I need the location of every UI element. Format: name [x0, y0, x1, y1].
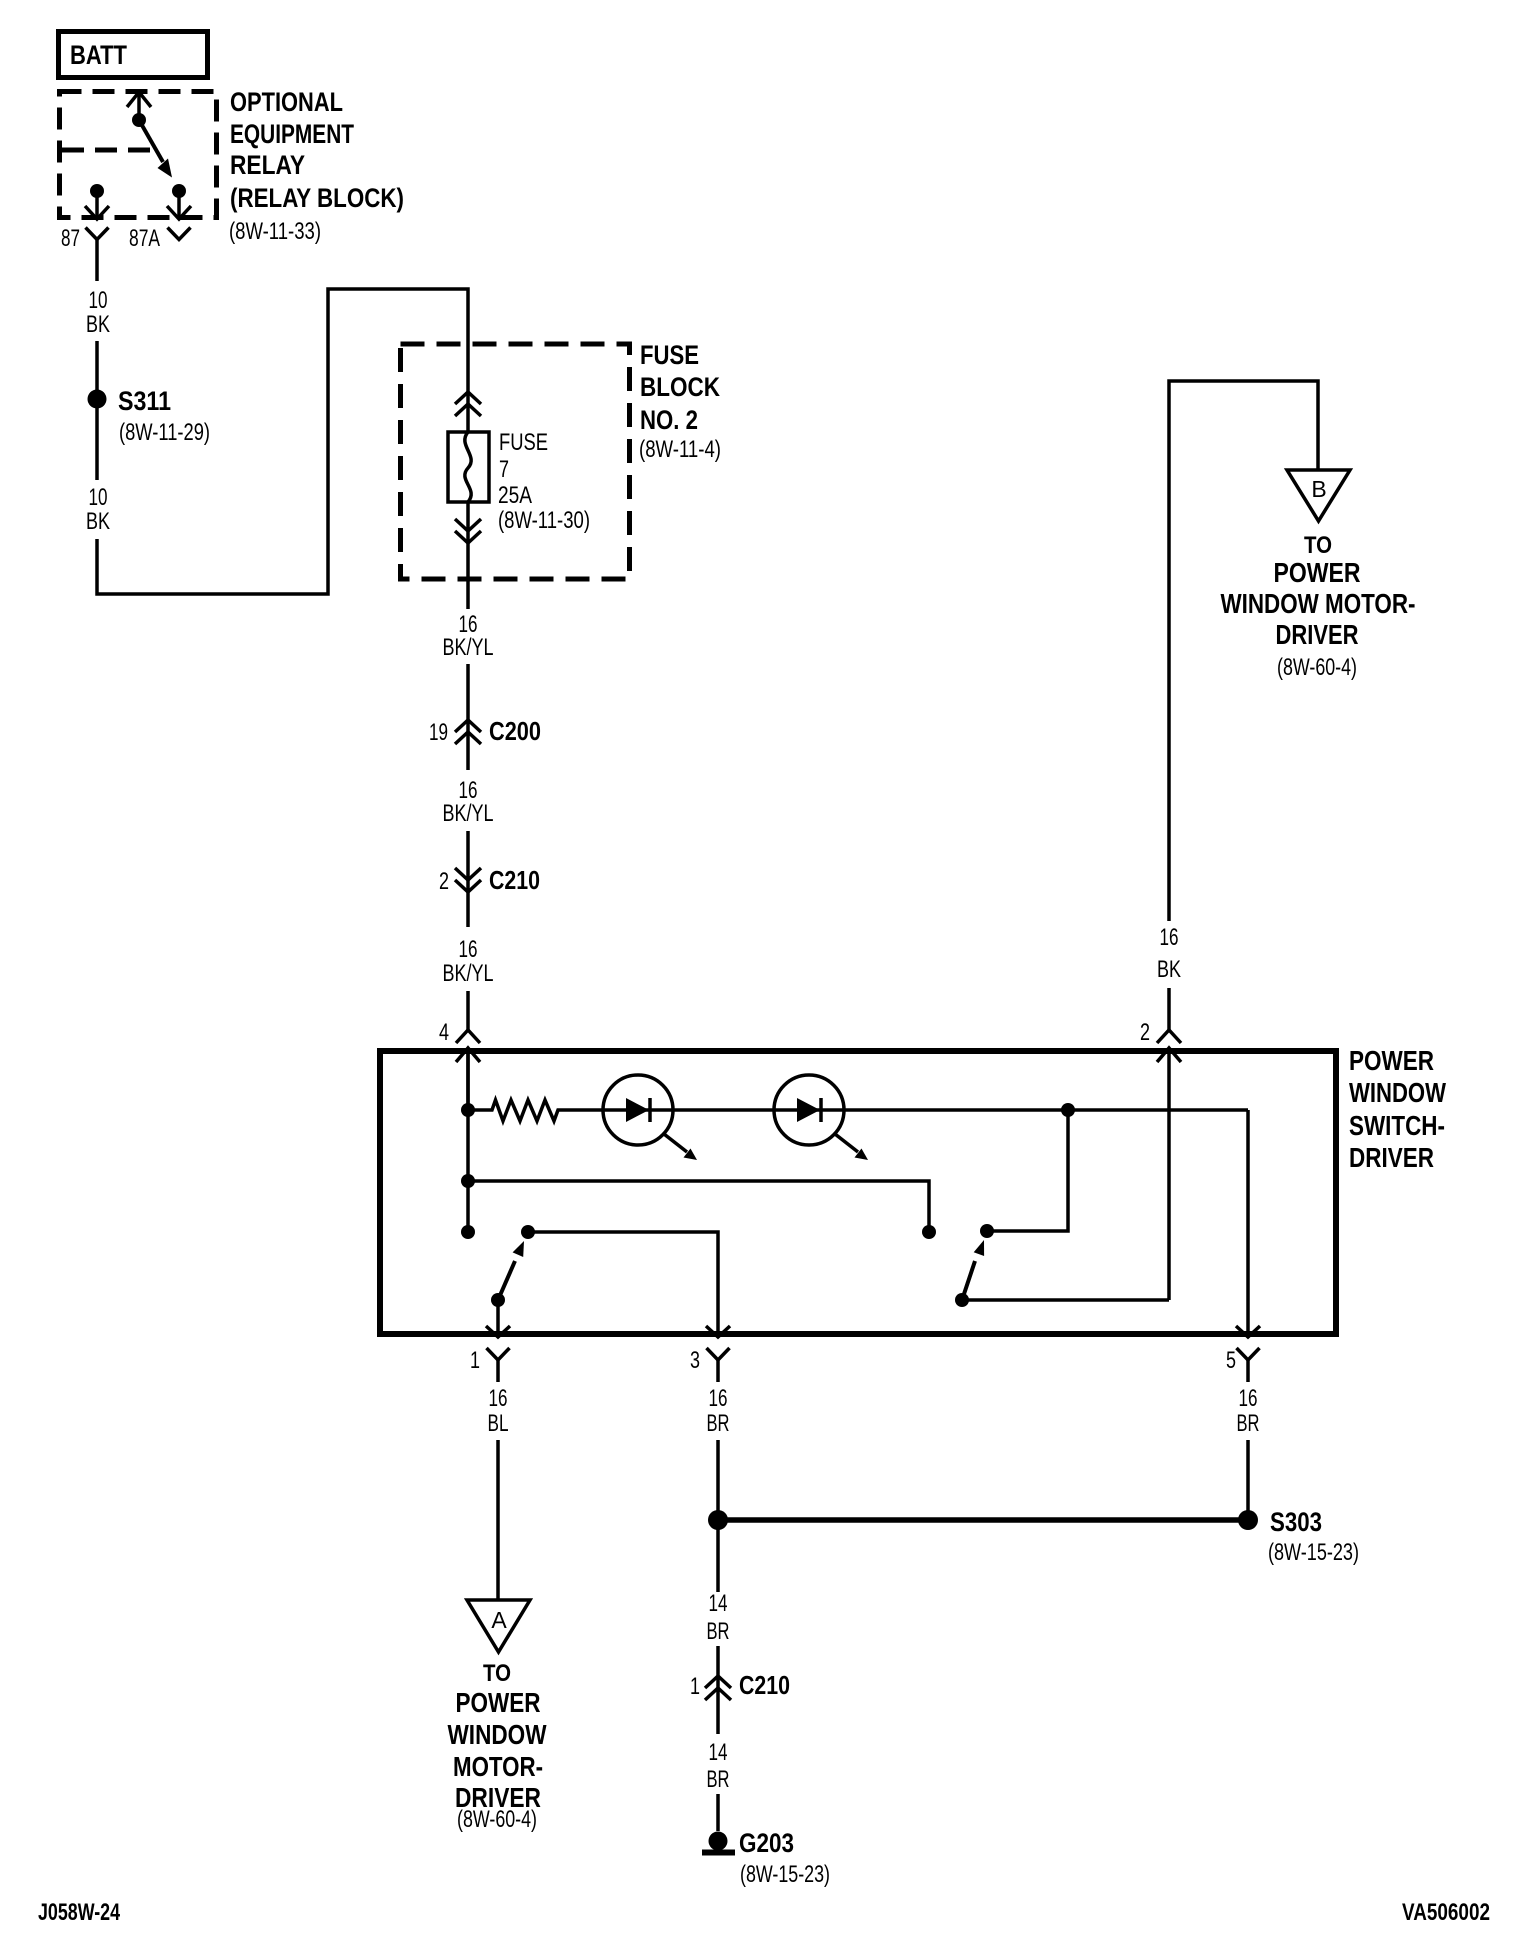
- svg-text:BR: BR: [1237, 1410, 1260, 1437]
- connector chevrons above fuse: [455, 392, 481, 416]
- drawing number VA506002: [1402, 1899, 1490, 1926]
- svg-text:(8W-15-23): (8W-15-23): [1268, 1539, 1359, 1566]
- relay K1 optional equipment relay dashed box: [60, 92, 217, 218]
- svg-text:BK/YL: BK/YL: [443, 800, 494, 827]
- svg-text:BK: BK: [86, 311, 110, 338]
- svg-text:(8W-11-29): (8W-11-29): [119, 419, 210, 446]
- svg-text:B: B: [1311, 476, 1326, 502]
- svg-text:A: A: [491, 1607, 507, 1633]
- svg-text:SWITCH-: SWITCH-: [1349, 1110, 1445, 1141]
- wire pin3 down: [716, 1440, 720, 1512]
- left switch SW1: [491, 1225, 535, 1337]
- svg-text:BK/YL: BK/YL: [443, 960, 494, 987]
- relay terminal 87: [61, 184, 109, 281]
- wire pin5 drop: [1236, 1110, 1260, 1337]
- svg-text:1: 1: [470, 1347, 480, 1374]
- pin 2 connector at switch top: [1140, 988, 1181, 1046]
- wire pin5 to S303: [1246, 1440, 1250, 1512]
- pin 1 connector: [470, 1326, 510, 1382]
- svg-text:1: 1: [690, 1673, 700, 1700]
- svg-text:2: 2: [439, 868, 449, 895]
- svg-text:WINDOW: WINDOW: [1349, 1077, 1446, 1108]
- svg-text:16: 16: [1239, 1385, 1258, 1412]
- wire to ground: [716, 1794, 720, 1831]
- wire left switch contact to pin3: [528, 1232, 718, 1337]
- svg-text:TO: TO: [1304, 532, 1332, 559]
- battery feed BATT: [59, 32, 208, 78]
- splice S303: [708, 1507, 1359, 1566]
- relay terminal 87A: [129, 184, 191, 252]
- resistor R1 illumination: [468, 1100, 603, 1121]
- svg-text:(RELAY BLOCK): (RELAY BLOCK): [230, 183, 404, 213]
- wire label 10 BK lower: [86, 484, 110, 535]
- svg-text:BR: BR: [707, 1618, 730, 1645]
- svg-text:87: 87: [61, 225, 80, 252]
- svg-text:2: 2: [1140, 1019, 1150, 1046]
- svg-text:S311: S311: [118, 386, 171, 416]
- svg-text:OPTIONAL: OPTIONAL: [230, 87, 343, 117]
- off-page connector B: [1287, 470, 1350, 521]
- wire S303 down: [716, 1529, 720, 1592]
- power window switch-driver box: [380, 1045, 1446, 1334]
- svg-text:16: 16: [489, 1385, 508, 1412]
- svg-text:(8W-15-23): (8W-15-23): [740, 1861, 830, 1888]
- svg-text:POWER: POWER: [456, 1687, 541, 1718]
- svg-text:(8W-11-4): (8W-11-4): [639, 436, 721, 463]
- svg-text:BLOCK: BLOCK: [640, 372, 720, 402]
- svg-text:5: 5: [1226, 1347, 1236, 1374]
- right switch SW2: [955, 1224, 1169, 1307]
- wire label 16 BL: [488, 1385, 509, 1437]
- wire segment: [716, 1646, 720, 1734]
- wire label 16 BK/YL first: [443, 611, 494, 661]
- svg-text:TO: TO: [483, 1660, 511, 1687]
- wire pin2 up to triangle B: [1169, 381, 1318, 921]
- connector C210 pin 2: [439, 865, 540, 895]
- svg-text:POWER: POWER: [1274, 557, 1361, 588]
- wire LED output to pin5 drop: [844, 1103, 1248, 1117]
- wire segment: [466, 831, 470, 927]
- connector C200 pin 19: [429, 716, 541, 746]
- sheet number J058W-24: [38, 1899, 120, 1926]
- svg-text:87A: 87A: [129, 225, 160, 252]
- svg-text:BK: BK: [86, 508, 110, 535]
- svg-text:DRIVER: DRIVER: [1276, 619, 1359, 650]
- wire label 14 BR upper: [707, 1590, 730, 1645]
- svg-text:(8W-60-4): (8W-60-4): [1277, 654, 1357, 681]
- svg-text:3: 3: [690, 1347, 700, 1374]
- pin 4 connector at switch: [439, 1019, 480, 1110]
- wire S311 down: [95, 407, 99, 480]
- svg-text:FUSE: FUSE: [499, 429, 548, 456]
- svg-text:16: 16: [459, 936, 478, 963]
- wire label 16 BK pin2: [1157, 924, 1181, 983]
- pin 3 connector: [690, 1326, 730, 1382]
- relay label text: [229, 87, 404, 245]
- connector C210 pin 1: [690, 1670, 790, 1700]
- svg-text:C210: C210: [489, 865, 540, 895]
- svg-text:7: 7: [499, 456, 509, 483]
- svg-text:DRIVER: DRIVER: [1349, 1142, 1434, 1173]
- svg-text:19: 19: [429, 719, 448, 746]
- svg-text:BR: BR: [707, 1766, 730, 1793]
- destination label A: [448, 1660, 547, 1833]
- wire right switch contact to LED line: [987, 1110, 1068, 1231]
- svg-text:16: 16: [709, 1385, 728, 1412]
- LED D1 illumination lamp: [603, 1075, 697, 1160]
- wire label 16 BK/YL third: [443, 936, 494, 987]
- wire between LEDs: [673, 1108, 774, 1112]
- svg-text:(8W-11-33): (8W-11-33): [229, 218, 321, 245]
- svg-text:(8W-11-30): (8W-11-30): [498, 507, 590, 534]
- wire label 16 BK/YL second: [443, 777, 494, 827]
- svg-text:BL: BL: [488, 1410, 509, 1437]
- ground G203: [702, 1828, 830, 1888]
- LED D2 illumination lamp: [774, 1075, 868, 1160]
- wire fuse to C200: [466, 502, 470, 609]
- svg-text:EQUIPMENT: EQUIPMENT: [230, 119, 354, 149]
- wire segment: [466, 664, 470, 770]
- svg-text:NO. 2: NO. 2: [640, 405, 698, 435]
- svg-text:RELAY: RELAY: [230, 150, 305, 180]
- node pin4 feed junction: [461, 1048, 475, 1239]
- wire pin1 to triangle A: [496, 1440, 500, 1600]
- svg-text:J058W-24: J058W-24: [38, 1899, 120, 1926]
- svg-text:10: 10: [89, 287, 108, 314]
- svg-text:14: 14: [709, 1739, 728, 1766]
- fuse block label: [639, 340, 721, 463]
- fuse block no.2 dashed box: [401, 344, 630, 579]
- svg-text:S303: S303: [1270, 1507, 1322, 1537]
- wire pin2 inside box: [1157, 1048, 1181, 1300]
- svg-text:25A: 25A: [498, 482, 532, 509]
- wire label 10 BK upper: [86, 287, 110, 338]
- splice S311: [88, 386, 211, 446]
- wire 87 to S311: [95, 341, 99, 391]
- svg-text:BK: BK: [1157, 956, 1181, 983]
- svg-text:BR: BR: [707, 1410, 730, 1437]
- svg-text:(8W-60-4): (8W-60-4): [457, 1806, 537, 1833]
- fuse F7 25A: [448, 429, 590, 534]
- svg-text:C210: C210: [739, 1670, 790, 1700]
- svg-text:WINDOW MOTOR-: WINDOW MOTOR-: [1221, 588, 1416, 619]
- svg-text:C200: C200: [489, 716, 541, 746]
- svg-text:BK/YL: BK/YL: [443, 634, 494, 661]
- svg-text:16: 16: [1160, 924, 1179, 951]
- connector chevrons below fuse: [455, 519, 481, 543]
- relay contact arrow to BATT: [127, 92, 151, 127]
- wire label 14 BR lower: [707, 1739, 730, 1793]
- destination label B: [1221, 532, 1416, 681]
- svg-text:10: 10: [89, 484, 108, 511]
- wire S311 to fuse block: [97, 289, 468, 594]
- wire junction feed to right switch contact: [468, 1181, 936, 1239]
- wire to switch pin 4: [466, 991, 470, 1030]
- off-page connector A: [467, 1600, 530, 1652]
- svg-text:14: 14: [709, 1590, 728, 1617]
- svg-text:4: 4: [439, 1019, 449, 1046]
- svg-text:BATT: BATT: [70, 40, 127, 70]
- svg-text:WINDOW: WINDOW: [448, 1719, 547, 1750]
- svg-text:G203: G203: [739, 1828, 794, 1858]
- relay movable arm: [139, 120, 172, 178]
- svg-text:VA506002: VA506002: [1402, 1899, 1490, 1926]
- wire label 16 BR pin3: [707, 1385, 730, 1437]
- svg-text:POWER: POWER: [1349, 1045, 1434, 1076]
- svg-text:MOTOR-: MOTOR-: [453, 1751, 543, 1782]
- svg-text:FUSE: FUSE: [640, 340, 699, 370]
- pin 5 connector: [1226, 1347, 1260, 1382]
- wire label 16 BR pin5: [1237, 1385, 1260, 1437]
